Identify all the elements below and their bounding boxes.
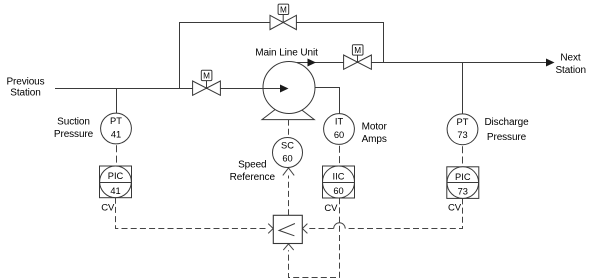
svg-text:60: 60 (333, 186, 343, 196)
svg-text:SC: SC (281, 141, 294, 151)
svg-text:60: 60 (334, 130, 344, 140)
wire: inlet line inside pump (263, 88, 280, 90)
signal: IIC-60 CV down, across and up to low-select bottom (dashed) (289, 198, 340, 277)
signal: PIC-73 CV to low-select right input (dashed, hops IIC-60 line) (345, 198, 462, 228)
signal: PIC-41 CV to low-select left input (dashed) (116, 198, 268, 229)
function block LS1: low-select (273, 215, 302, 243)
svg-text:Discharge: Discharge (484, 117, 529, 128)
instrument PT-41 (101, 113, 132, 144)
svg-text:Pressure: Pressure (487, 132, 527, 143)
svg-text:Station: Station (555, 65, 585, 76)
controller IIC-60 (shared display/control) (323, 166, 355, 198)
svg-text:M: M (203, 72, 210, 81)
svg-text:PIC: PIC (455, 172, 471, 182)
wire: bypass right drop (383, 22, 385, 62)
svg-text:CV: CV (101, 203, 115, 214)
svg-text:PT: PT (457, 117, 469, 127)
wire: bypass riser at x=179 (179, 22, 181, 89)
svg-text:Main Line Unit: Main Line Unit (255, 48, 318, 59)
signal: low-select output up to SC-60 (dashed) (288, 176, 290, 216)
arrow: open arrowhead into low-select right (302, 224, 307, 234)
signal: PT-41 to PIC-41 (dashed) (116, 145, 118, 166)
arrow: open arrowhead into SC-60 (283, 168, 294, 176)
svg-text:73: 73 (458, 187, 468, 197)
instrument IT-60 (324, 114, 355, 145)
arrow: flow arrow inside pump (280, 85, 289, 93)
valve V1: motorized bypass valve (270, 4, 296, 30)
arrow: open arrowhead into low-select left (268, 224, 273, 234)
valve V2: motorized discharge valve (344, 45, 372, 70)
svg-text:Next: Next (560, 53, 580, 64)
arrow: flow arrow to Next Station (546, 59, 555, 67)
svg-text:Pressure: Pressure (54, 129, 94, 140)
controller PIC-73 (shared display/control) (447, 167, 479, 199)
signal: pump speed to SC-60 (dashed) (288, 120, 290, 138)
svg-text:IIC: IIC (333, 171, 345, 181)
controller PIC-41 (shared display/control) (100, 166, 132, 198)
svg-text:IT: IT (335, 117, 344, 127)
instrument PT-73 (447, 114, 478, 145)
signal: IT-60 to IIC-60 (dashed) (339, 146, 341, 166)
svg-text:M: M (354, 46, 361, 55)
wire: pump discharge branch to IT-60 (315, 88, 340, 114)
svg-text:CV: CV (324, 203, 338, 214)
svg-text:Amps: Amps (362, 134, 387, 145)
wire: PT-73 tap (462, 62, 464, 114)
svg-text:Reference: Reference (230, 172, 276, 183)
svg-text:Station: Station (10, 88, 40, 99)
svg-text:Previous: Previous (6, 76, 44, 87)
wire: discharge line to Next Station (297, 62, 546, 64)
svg-text:M: M (280, 6, 287, 15)
wire: main suction line from Previous Station (55, 88, 280, 90)
svg-text:CV: CV (448, 203, 462, 214)
signal: PT-73 to PIC-73 (dashed) (462, 146, 464, 166)
arrow: pump outlet flow arrow (308, 59, 317, 67)
wire: bypass top line (179, 22, 384, 24)
svg-text:Speed: Speed (238, 160, 266, 171)
pump U1 Main Line Unit: base triangle (262, 100, 314, 120)
svg-text:Suction: Suction (57, 117, 90, 128)
svg-text:73: 73 (457, 130, 467, 140)
svg-text:41: 41 (110, 186, 120, 196)
valve V3: motorized suction valve (193, 70, 221, 95)
svg-text:Motor: Motor (362, 122, 388, 133)
svg-text:60: 60 (282, 153, 292, 163)
svg-text:PT: PT (110, 116, 122, 126)
svg-text:41: 41 (111, 129, 121, 139)
instrument SC-60 speed controller (273, 138, 303, 168)
wire: PT-41 tap (116, 88, 118, 113)
svg-text:PIC: PIC (108, 171, 124, 181)
pump U1 Main Line Unit: casing circle (263, 62, 315, 114)
arrow: open arrowhead into low-select bottom (283, 244, 293, 250)
